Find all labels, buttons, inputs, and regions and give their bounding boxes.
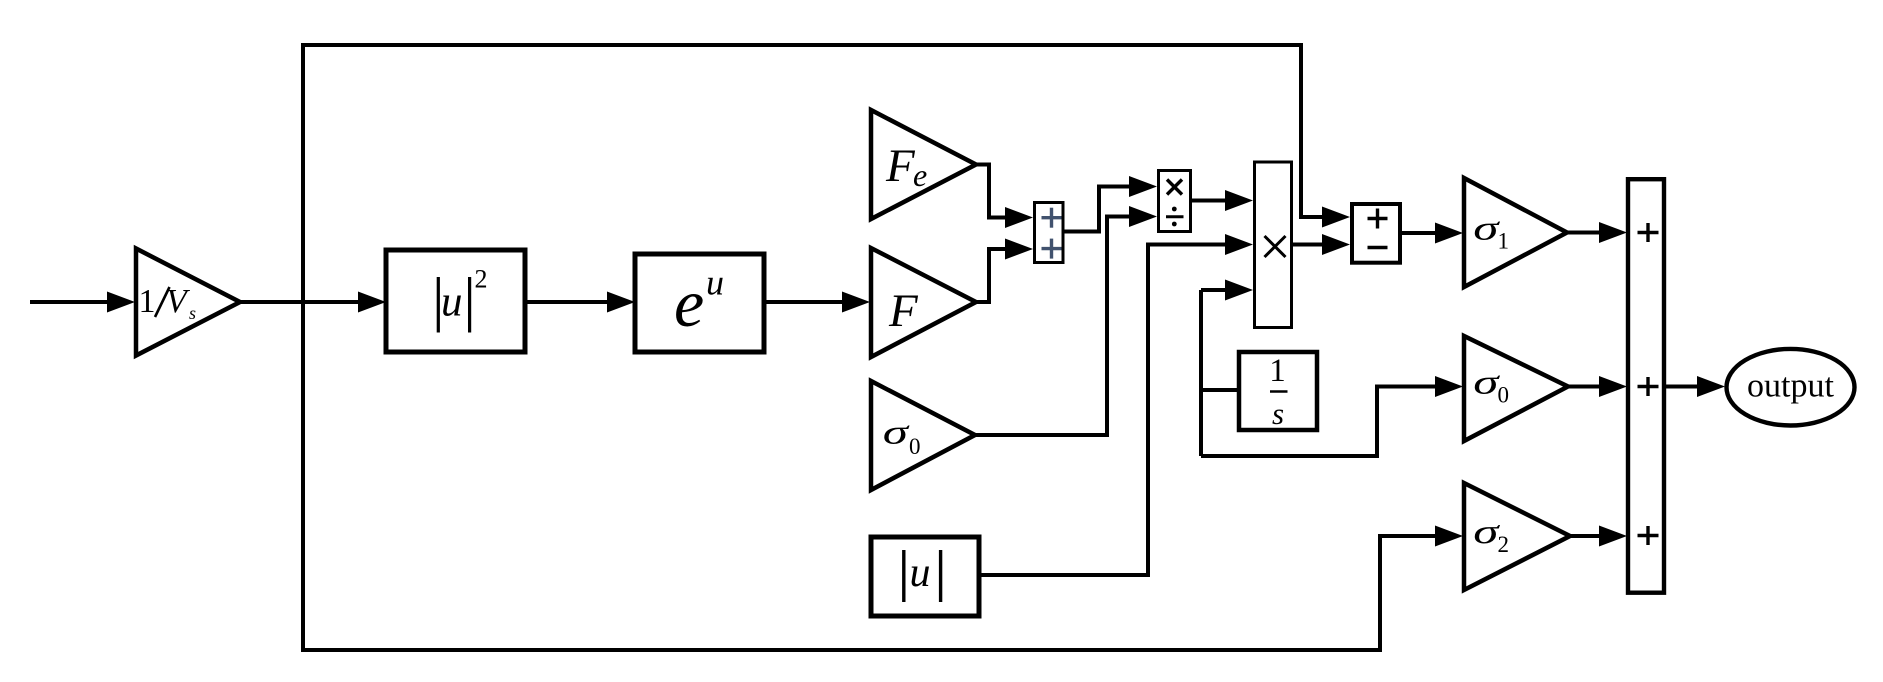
gain block sigma2 [1464,483,1570,590]
block |u|^2 [386,250,525,352]
label |u|^2 [438,265,487,333]
gain block sigma0 left [871,381,975,490]
label sigma0 left [883,413,921,459]
label 1/s [1269,353,1287,431]
times symbol in product [1265,236,1286,257]
plus signs slate [1042,208,1062,259]
gain block sigma1 [1464,178,1567,287]
sum block ++ [1035,203,1064,263]
wire integrator net: 1/s left to junction, up to product input3, down to sigma0 right [1201,290,1439,456]
wire +- to sigma1 [1401,231,1439,235]
gain block Fe [871,110,976,219]
svg-text:u: u [441,279,463,326]
wire x/div to product [1192,199,1229,203]
wire sigma0 right to final sum [1568,385,1603,389]
svg-text:1: 1 [1498,229,1510,254]
block integrator 1/s [1239,352,1317,430]
wire final sum to output [1665,385,1701,389]
arrowhead into sigma1 [1435,223,1463,244]
svg-text:σ: σ [1473,209,1500,248]
plus minus symbols [1368,209,1388,248]
arrowhead into e^u [607,292,635,313]
arrowhead into output [1697,376,1725,397]
label e^u [674,263,724,342]
label Fe [885,140,927,193]
output ellipse [1727,349,1855,426]
times symbol [1167,180,1182,195]
block product x [1255,162,1292,328]
arrowhead into sigma0 right [1435,376,1463,397]
svg-text:2: 2 [1498,532,1510,557]
wire gain to |u|^2 [240,300,363,304]
svg-text:F: F [888,285,919,337]
svg-text:e: e [913,157,927,193]
svg-text:σ: σ [1473,363,1500,402]
wire sigma2 to final sum [1570,534,1603,538]
wire input line [30,300,112,304]
wire F to sum++ [976,249,1009,302]
svg-text:u: u [910,550,931,596]
svg-text:output: output [1747,368,1834,405]
svg-text:s: s [1272,396,1284,431]
arrowhead into +- minus [1322,234,1350,255]
wire |u|^2 to e^u [525,300,612,304]
arrowhead into gain 1/Vs [107,292,135,313]
arrowhead into sum++ bottom [1005,239,1033,260]
svg-text:F: F [885,140,916,192]
wire sigma0-left to x/div block [975,217,1133,436]
block x-divide [1159,171,1191,232]
arrowhead into |u|^2 [358,292,386,313]
gain block F [871,248,976,357]
plus signs in final sum [1638,223,1659,545]
arrowhead into x/div top [1129,176,1157,197]
svg-text:0: 0 [1498,383,1510,408]
svg-text:e: e [674,265,704,341]
svg-text:u: u [706,263,724,303]
arrowhead into final sum bottom [1599,526,1627,547]
wire product out to +- minus input [1293,243,1326,247]
gain block 1/Vs [136,249,240,356]
svg-text:0: 0 [909,434,921,459]
label 1/Vs [139,283,197,323]
svg-text:σ: σ [1473,512,1500,551]
arrowhead into product input3 [1225,280,1253,301]
feedback wire lower loop: branch at (303,302) down, across bottom, up to sigma2 [303,302,1439,650]
arrowhead into x/div bottom [1129,206,1157,227]
arrowhead into sum++ top [1005,207,1033,228]
label sigma1 [1473,209,1509,254]
label sigma0 right [1473,363,1509,408]
wire Fe to sum++ [976,165,1009,218]
arrowhead into +- block plus input [1322,207,1350,228]
wire |u| to product input2 [979,245,1229,576]
block e^u [635,254,764,352]
label |u| [904,550,941,602]
svg-text:σ: σ [883,413,910,452]
svg-text:1: 1 [139,283,156,320]
arrowhead into F [842,292,870,313]
divide symbol [1166,207,1184,227]
svg-text:1: 1 [1269,353,1286,389]
svg-text:s: s [189,303,196,323]
arrowhead into final sum top [1599,222,1627,243]
svg-text:2: 2 [475,265,488,294]
final sum block [1628,179,1664,593]
arrowhead into final sum middle [1599,376,1627,397]
sum block +- [1352,204,1400,263]
wire sigma1 to final sum [1567,231,1603,235]
feedback wire upper loop: branch at (303,302) up, across top, down to sum +- [303,45,1326,302]
arrowhead into product input1 [1225,190,1253,211]
label sigma2 [1473,512,1509,557]
arrowhead into sigma2 [1435,526,1463,547]
block |u| [871,537,979,616]
gain block sigma0 right [1464,336,1568,441]
wire sum++ to x/div block [1064,187,1133,232]
wire e^u to F [764,300,846,304]
arrowhead into product input2 [1225,234,1253,255]
